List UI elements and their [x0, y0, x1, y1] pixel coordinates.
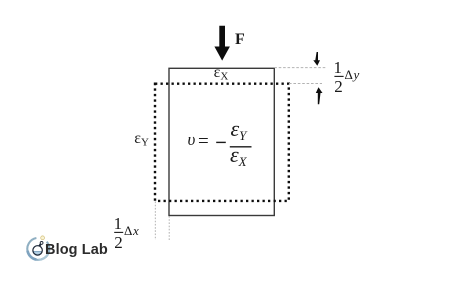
solid rectangle (specimen)	[169, 68, 274, 215]
logo flask neck ring	[40, 242, 43, 245]
fraction bar of half-dy	[334, 75, 343, 77]
label epsilon_Y (left)	[134, 131, 149, 149]
leader line from solid rect top-right	[274, 67, 326, 69]
logo flask liquid surface	[33, 251, 42, 253]
vertical leader from dotted rect bottom-left	[154, 202, 156, 241]
logo arc bottom-left thick accent	[28, 251, 37, 260]
fraction 1/2 dy : numeral 1	[334, 59, 343, 76]
fraction 1/2 dx : numeral 1	[114, 215, 123, 232]
Blog Lab logo: swoosh arc	[27, 238, 49, 260]
fraction 1/2 dy : delta y	[345, 68, 360, 81]
leader line from dotted rect top-right	[289, 83, 322, 85]
formula fraction bar	[230, 146, 252, 148]
small up measurement arrow	[316, 87, 323, 104]
formula v = -eY/eX : nu	[188, 131, 196, 148]
label F	[235, 31, 245, 49]
formula equals sign	[198, 132, 209, 151]
vertical leader from solid rect bottom-left	[168, 216, 170, 240]
Blog Lab wordmark	[45, 242, 108, 258]
logo flask neck	[39, 244, 41, 247]
small down measurement arrow	[313, 52, 320, 66]
logo arc bottom-right light accent	[38, 253, 48, 260]
formula denominator epsilon_X	[230, 144, 247, 168]
formula minus sign	[216, 141, 226, 143]
logo flask liquid	[33, 252, 42, 255]
fraction bar of half-dx	[114, 231, 123, 233]
fraction 1/2 dx : delta x	[124, 224, 139, 237]
fraction 1/2 dy : numeral 2	[334, 78, 343, 95]
logo flask bulb outline	[33, 246, 42, 255]
force arrow F	[214, 26, 230, 61]
dotted rectangle (deformed outline)	[155, 84, 289, 201]
label epsilon_X (top)	[214, 65, 229, 83]
logo tiny bulb	[41, 236, 45, 240]
fraction 1/2 dx : numeral 2	[114, 234, 123, 251]
formula numerator epsilon_Y	[231, 118, 247, 142]
